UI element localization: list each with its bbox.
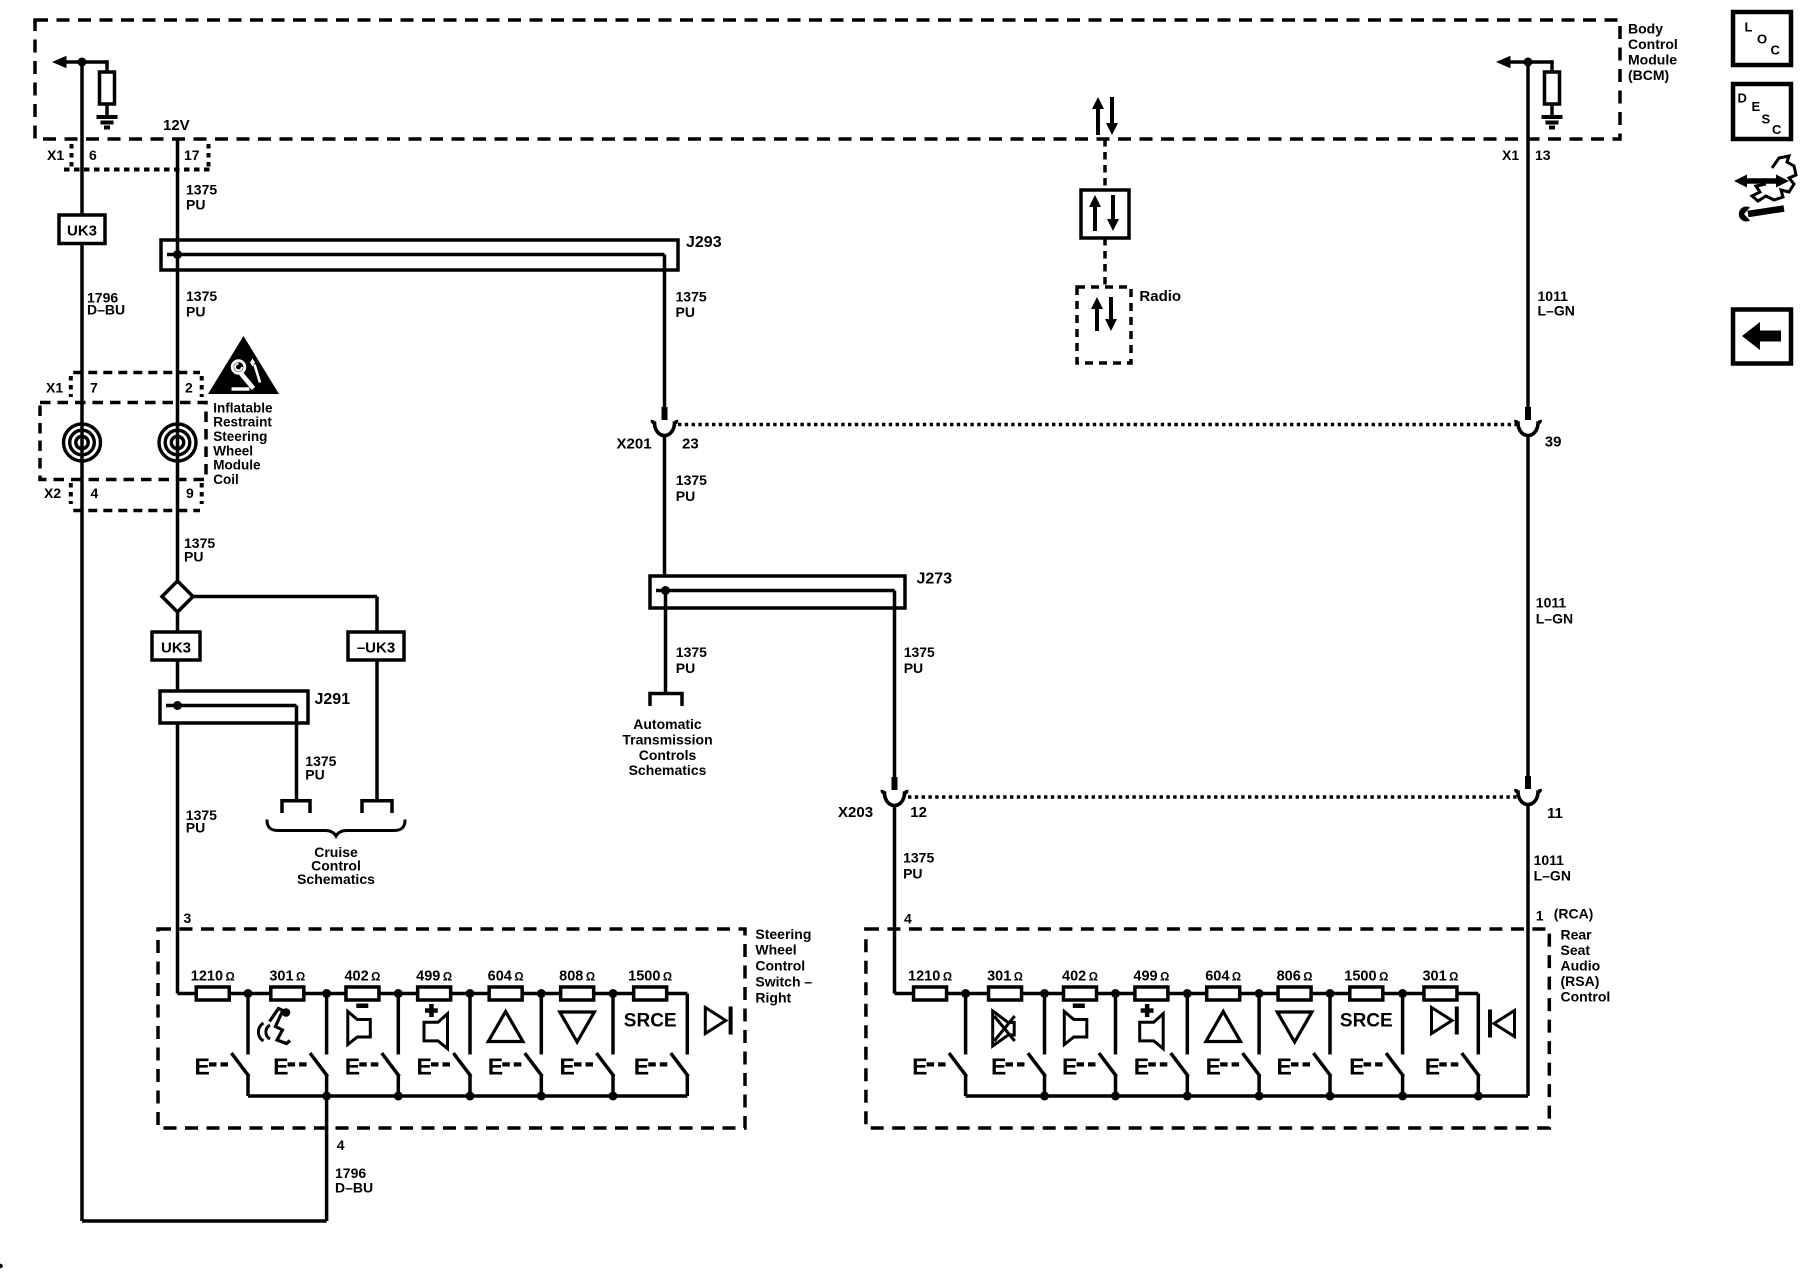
svg-text:499Ω: 499Ω bbox=[416, 969, 452, 985]
svg-text:E: E bbox=[912, 1054, 927, 1080]
junction on bottom bus x=1259.1 bbox=[1255, 1092, 1264, 1101]
connector plane dotted bbox=[908, 795, 1518, 799]
svg-text:E: E bbox=[1134, 1054, 1149, 1080]
Body Control Module (BCM) dashed box bbox=[35, 20, 1620, 139]
svg-text:E: E bbox=[1349, 1054, 1364, 1080]
svg-text:E: E bbox=[560, 1054, 575, 1080]
coil right spiral bbox=[159, 424, 196, 461]
svg-text:Switch –: Switch – bbox=[755, 974, 812, 990]
junction on bottom bus x=1044.5 bbox=[1040, 1092, 1049, 1101]
svg-text:17: 17 bbox=[184, 147, 200, 163]
serial data arrows at BCM bbox=[1096, 106, 1100, 135]
svg-text:Schematics: Schematics bbox=[629, 762, 707, 778]
connector pin 39 bbox=[1525, 407, 1531, 420]
svg-text:E: E bbox=[1752, 99, 1761, 114]
svg-text:1375: 1375 bbox=[904, 644, 935, 660]
svg-text:Schematics: Schematics bbox=[297, 871, 375, 887]
svg-text:Control: Control bbox=[1561, 988, 1611, 1004]
svg-text:E: E bbox=[1206, 1054, 1221, 1080]
svg-text:4: 4 bbox=[337, 1137, 345, 1153]
svg-text:E: E bbox=[991, 1054, 1006, 1080]
switch blade bbox=[672, 1055, 688, 1076]
svg-text:PU: PU bbox=[186, 303, 205, 319]
top bus wire bbox=[895, 992, 1479, 996]
junction bbox=[1524, 58, 1533, 67]
seek down icon bbox=[1277, 1012, 1312, 1042]
svg-text:1375: 1375 bbox=[903, 850, 934, 866]
switch contact at x=1330 bbox=[1328, 994, 1332, 1055]
wire 1011 L-GN bbox=[1526, 62, 1530, 420]
junction on top bus x=1402.6 bbox=[1398, 989, 1407, 998]
switch blade bbox=[1244, 1055, 1260, 1076]
svg-text:Right: Right bbox=[755, 989, 791, 1005]
wire 1375 PU from BCM pin 17 bbox=[176, 139, 180, 581]
switch contact at x=965.6 bbox=[964, 994, 968, 1055]
connector plane dotted bbox=[678, 423, 1518, 427]
svg-text:808Ω: 808Ω bbox=[559, 969, 595, 985]
svg-text:L–GN: L–GN bbox=[1534, 868, 1571, 884]
svg-text:J273: J273 bbox=[917, 571, 953, 588]
svg-text:Seat: Seat bbox=[1561, 942, 1591, 958]
wire bbox=[1526, 805, 1530, 1096]
svg-text:X2: X2 bbox=[44, 485, 61, 501]
junction on top bus x=1187.3 bbox=[1183, 989, 1192, 998]
svg-text:1011: 1011 bbox=[1534, 852, 1565, 868]
resistor 1500 ohm bbox=[634, 987, 667, 1000]
wire to transmission bbox=[664, 591, 668, 693]
svg-text:1011: 1011 bbox=[1536, 595, 1567, 611]
switch contact at x=1115.5 bbox=[1114, 994, 1118, 1055]
svg-text:D–BU: D–BU bbox=[87, 302, 125, 318]
svg-text:Restraint: Restraint bbox=[213, 415, 272, 430]
voice recognition icon bbox=[258, 1023, 263, 1041]
svg-text:1375: 1375 bbox=[676, 289, 707, 305]
junction on top bus x=398.3 bbox=[394, 989, 403, 998]
wire to pin 4 bbox=[325, 1096, 329, 1221]
svg-text:Audio: Audio bbox=[1561, 957, 1601, 973]
connector pin 11 bbox=[1525, 776, 1531, 789]
switch blade bbox=[1463, 1055, 1479, 1076]
svg-text:E: E bbox=[634, 1054, 649, 1080]
junction on bottom bus x=1402.6 bbox=[1398, 1092, 1407, 1101]
svg-text:Control: Control bbox=[1628, 36, 1678, 52]
resistor 604 ohm bbox=[489, 987, 522, 1000]
svg-text:301Ω: 301Ω bbox=[269, 969, 305, 985]
switch blade bbox=[1172, 1055, 1188, 1076]
connector X1 (coil) bracket bbox=[73, 371, 200, 375]
switch blade bbox=[526, 1055, 542, 1076]
fuse UK3 box (2) bbox=[152, 632, 200, 660]
serial data dashed wire bbox=[1103, 139, 1107, 190]
svg-text:806Ω: 806Ω bbox=[1277, 969, 1313, 985]
junction on bottom bus x=326.6 bbox=[322, 1092, 331, 1101]
wire 1796 D-BU from BCM X1-6 bbox=[80, 62, 84, 215]
resistor 301 ohm bbox=[271, 987, 304, 1000]
resistor 402 ohm bbox=[346, 987, 379, 1000]
svg-text:1375: 1375 bbox=[186, 288, 217, 304]
svg-text:Controls: Controls bbox=[639, 747, 697, 763]
switch blade bbox=[598, 1055, 614, 1076]
brace bbox=[267, 820, 405, 837]
junction on top bus x=248 bbox=[244, 989, 253, 998]
switch contact at x=326.6 bbox=[325, 994, 329, 1055]
junction on bottom bus x=613 bbox=[609, 1092, 618, 1101]
ground bbox=[97, 115, 118, 119]
wire bbox=[1550, 60, 1554, 72]
switch contact at x=398.3 bbox=[397, 994, 401, 1055]
bottom bus wire bbox=[248, 1094, 687, 1098]
LOC button bbox=[1733, 12, 1791, 65]
resistor 402 ohm bbox=[1064, 987, 1097, 1000]
resistor 301 ohm bbox=[989, 987, 1022, 1000]
switch blade bbox=[1387, 1055, 1403, 1076]
svg-text:X203: X203 bbox=[838, 804, 873, 821]
junction on top bus x=541.3 bbox=[537, 989, 546, 998]
svg-text:1500Ω: 1500Ω bbox=[1344, 969, 1388, 985]
svg-text:J291: J291 bbox=[315, 691, 351, 708]
switch blade bbox=[383, 1055, 399, 1076]
resistor 1500 ohm bbox=[1350, 987, 1383, 1000]
svg-text:PU: PU bbox=[676, 304, 695, 320]
svg-text:D: D bbox=[1738, 91, 1747, 106]
switch contact at x=541.3 bbox=[540, 994, 544, 1055]
svg-text:402Ω: 402Ω bbox=[344, 969, 380, 985]
junction in J293 bbox=[173, 250, 182, 259]
navigation/wrench icon bbox=[1744, 178, 1779, 184]
junction on top bus x=1044.5 bbox=[1040, 989, 1049, 998]
switch contact at x=1478.3 bbox=[1477, 994, 1481, 1055]
svg-text:E: E bbox=[1277, 1054, 1292, 1080]
junction on top bus x=470 bbox=[466, 989, 475, 998]
switch blade bbox=[1315, 1055, 1331, 1076]
svg-text:PU: PU bbox=[676, 660, 695, 676]
page corner mark bbox=[0, 1264, 3, 1269]
coil left spiral bbox=[64, 424, 101, 461]
wire bbox=[176, 611, 180, 633]
svg-text:SRCE: SRCE bbox=[1340, 1011, 1393, 1032]
svg-text:E: E bbox=[195, 1054, 210, 1080]
svg-text:Radio: Radio bbox=[1139, 288, 1181, 305]
junction on bottom bus x=1115.5 bbox=[1111, 1092, 1120, 1101]
switch contact at x=1187.3 bbox=[1186, 994, 1190, 1055]
svg-text:2: 2 bbox=[185, 380, 193, 396]
svg-text:–UK3: –UK3 bbox=[357, 640, 395, 657]
switch contact at x=1259.1 bbox=[1257, 994, 1261, 1055]
inflatable restraint warning triangle bbox=[208, 336, 279, 394]
svg-text:E: E bbox=[345, 1054, 360, 1080]
svg-text:1375: 1375 bbox=[676, 644, 707, 660]
connector X203 pin bbox=[892, 777, 898, 790]
svg-text:3: 3 bbox=[184, 910, 192, 926]
svg-text:13: 13 bbox=[1535, 147, 1551, 163]
switch contact at x=1402.6 bbox=[1401, 994, 1405, 1055]
svg-text:X1: X1 bbox=[47, 147, 64, 163]
svg-text:Wheel: Wheel bbox=[755, 942, 796, 958]
junction bbox=[78, 58, 87, 67]
svg-text:1375: 1375 bbox=[186, 181, 217, 197]
next track icon bbox=[705, 1008, 726, 1034]
wire bbox=[893, 806, 897, 994]
svg-text:(RSA): (RSA) bbox=[1561, 973, 1600, 989]
svg-text:Wheel: Wheel bbox=[213, 443, 253, 458]
svg-text:J293: J293 bbox=[686, 234, 722, 251]
svg-text:23: 23 bbox=[682, 436, 699, 453]
svg-text:PU: PU bbox=[903, 866, 922, 882]
svg-text:PU: PU bbox=[186, 197, 205, 213]
svg-text:L: L bbox=[1745, 20, 1753, 35]
svg-text:1500Ω: 1500Ω bbox=[628, 969, 672, 985]
svg-text:C: C bbox=[1771, 43, 1781, 58]
mute icon bbox=[993, 1011, 1015, 1046]
svg-text:Inflatable: Inflatable bbox=[213, 400, 273, 415]
Inflatable Restraint Steering Wheel Module Coil dashed box bbox=[40, 403, 206, 480]
wire bbox=[1508, 60, 1552, 64]
junction on bottom bus x=1330 bbox=[1326, 1092, 1335, 1101]
resistor (BCM internal pull-up right) bbox=[1545, 72, 1560, 104]
wire to -UK3 bbox=[192, 595, 378, 599]
switch blade bbox=[950, 1055, 966, 1076]
connector X1 bracket bbox=[70, 144, 74, 170]
svg-text:6: 6 bbox=[89, 147, 97, 163]
wire J293 to X201 bbox=[663, 255, 667, 271]
connector X201 pin bbox=[662, 407, 668, 420]
junction on bottom bus x=541.3 bbox=[537, 1092, 546, 1101]
wire bbox=[1526, 436, 1530, 789]
svg-text:(RCA): (RCA) bbox=[1554, 905, 1594, 921]
svg-text:X1: X1 bbox=[1502, 147, 1519, 163]
Rear Seat Audio (RSA) dashed box bbox=[866, 929, 1549, 1128]
switch contact at x=1044.5 bbox=[1043, 994, 1047, 1055]
wire -UK3 to cruise bbox=[375, 660, 379, 799]
splice diamond bbox=[162, 581, 193, 612]
svg-text:1375: 1375 bbox=[676, 472, 707, 488]
switch contact at x=613 bbox=[611, 994, 615, 1055]
svg-text:X201: X201 bbox=[617, 436, 652, 453]
DESC button bbox=[1733, 84, 1791, 139]
bottom bus wire bbox=[966, 1094, 1528, 1098]
resistor 808 ohm bbox=[561, 987, 594, 1000]
svg-text:E: E bbox=[488, 1054, 503, 1080]
switch blade bbox=[1029, 1055, 1045, 1076]
svg-text:E: E bbox=[1062, 1054, 1077, 1080]
volume up icon bbox=[424, 1014, 448, 1049]
svg-text:PU: PU bbox=[186, 820, 205, 836]
wire bbox=[663, 436, 667, 576]
svg-text:PU: PU bbox=[305, 766, 324, 782]
svg-text:604Ω: 604Ω bbox=[488, 969, 524, 985]
serial data dashed wire bbox=[1103, 238, 1107, 287]
wire J291 branch bbox=[295, 706, 299, 800]
svg-text:12: 12 bbox=[910, 804, 927, 821]
svg-text:(BCM): (BCM) bbox=[1628, 67, 1669, 83]
top bus wire bbox=[178, 992, 688, 996]
svg-text:SRCE: SRCE bbox=[624, 1011, 677, 1032]
junction on bottom bus x=398.3 bbox=[394, 1092, 403, 1101]
svg-text:39: 39 bbox=[1545, 433, 1562, 450]
back button bbox=[1733, 310, 1791, 364]
svg-text:Steering: Steering bbox=[755, 926, 811, 942]
svg-text:L–GN: L–GN bbox=[1536, 611, 1573, 627]
fuse UK3 box bbox=[59, 215, 105, 244]
svg-text:E: E bbox=[417, 1054, 432, 1080]
svg-text:301Ω: 301Ω bbox=[987, 969, 1023, 985]
svg-text:1210Ω: 1210Ω bbox=[191, 969, 235, 985]
svg-text:X1: X1 bbox=[46, 380, 63, 396]
junction on bottom bus x=1187.3 bbox=[1183, 1092, 1192, 1101]
svg-text:E: E bbox=[273, 1054, 288, 1080]
junction on top bus x=613 bbox=[609, 989, 618, 998]
return wire bottom bbox=[82, 1219, 327, 1223]
resistor 1210 ohm bbox=[914, 987, 947, 1000]
wire bbox=[176, 660, 180, 691]
junction on bottom bus x=470 bbox=[466, 1092, 475, 1101]
svg-text:11: 11 bbox=[1547, 805, 1563, 822]
volume down icon bbox=[348, 1012, 371, 1045]
switch blade bbox=[233, 1055, 249, 1076]
svg-text:7: 7 bbox=[90, 380, 98, 396]
wire bbox=[64, 60, 107, 64]
svg-text:Transmission: Transmission bbox=[622, 731, 712, 747]
BCM right output arrow bbox=[1496, 56, 1511, 69]
wire bbox=[1550, 104, 1554, 117]
svg-text:402Ω: 402Ω bbox=[1062, 969, 1098, 985]
next track icon bbox=[1432, 1008, 1453, 1034]
svg-text:Module: Module bbox=[1628, 52, 1677, 68]
resistor 499 ohm bbox=[1135, 987, 1168, 1000]
svg-text:Steering: Steering bbox=[213, 429, 267, 444]
svg-text:PU: PU bbox=[184, 549, 203, 565]
svg-text:1: 1 bbox=[1536, 908, 1544, 924]
previous track icon bbox=[1488, 1010, 1492, 1038]
svg-text:Rear: Rear bbox=[1561, 926, 1593, 942]
switch contact at x=687.3 bbox=[686, 994, 690, 1055]
svg-text:D–BU: D–BU bbox=[335, 1179, 373, 1195]
svg-text:UK3: UK3 bbox=[67, 223, 97, 240]
BCM left output arrow bbox=[52, 56, 67, 69]
wire bbox=[105, 60, 109, 72]
svg-text:301Ω: 301Ω bbox=[1422, 969, 1458, 985]
junction on bottom bus x=1478.3 bbox=[1474, 1092, 1483, 1101]
junction on top bus x=1115.5 bbox=[1111, 989, 1120, 998]
wire bbox=[105, 104, 109, 117]
wire main below J291 bbox=[176, 723, 180, 994]
serial data box bbox=[1081, 190, 1129, 238]
volume up icon bbox=[1140, 1014, 1164, 1049]
svg-text:O: O bbox=[1757, 32, 1767, 47]
transmission stub connector bbox=[650, 694, 682, 707]
svg-text:Control: Control bbox=[755, 958, 805, 974]
switch blade bbox=[311, 1055, 327, 1076]
ground bbox=[1542, 115, 1563, 119]
resistor 301 ohm bbox=[1424, 987, 1457, 1000]
Steering Wheel Control Switch dashed box bbox=[158, 929, 745, 1128]
splice pack J293 bbox=[161, 240, 678, 270]
svg-text:604Ω: 604Ω bbox=[1205, 969, 1241, 985]
svg-text:PU: PU bbox=[676, 488, 695, 504]
seek down icon bbox=[560, 1012, 595, 1042]
volume down icon bbox=[1064, 1012, 1087, 1045]
junction on top bus x=965.6 bbox=[961, 989, 970, 998]
fuse -UK3 box bbox=[348, 632, 404, 660]
svg-text:UK3: UK3 bbox=[161, 640, 191, 657]
switch blade bbox=[1100, 1055, 1116, 1076]
junction on top bus x=1259.1 bbox=[1255, 989, 1264, 998]
junction on top bus x=326.6 bbox=[322, 989, 331, 998]
svg-text:4: 4 bbox=[904, 911, 912, 927]
splice pack J291 bbox=[160, 691, 308, 723]
svg-text:C: C bbox=[1772, 122, 1782, 137]
svg-text:PU: PU bbox=[904, 660, 923, 676]
resistor 1210 ohm bbox=[196, 987, 229, 1000]
svg-text:Coil: Coil bbox=[213, 472, 239, 487]
Radio dashed box bbox=[1077, 287, 1131, 363]
switch blade bbox=[455, 1055, 471, 1076]
switch contact at x=248 bbox=[246, 994, 250, 1055]
svg-text:Body: Body bbox=[1628, 21, 1663, 37]
wire bbox=[80, 244, 84, 1222]
resistor 604 ohm bbox=[1207, 987, 1240, 1000]
svg-text:12V: 12V bbox=[163, 117, 190, 134]
svg-text:E: E bbox=[1425, 1054, 1440, 1080]
switch contact at x=470 bbox=[468, 994, 472, 1055]
svg-text:1210Ω: 1210Ω bbox=[908, 969, 952, 985]
cruise stub connector right bbox=[362, 801, 392, 813]
cruise stub connector left bbox=[282, 801, 310, 813]
resistor 806 ohm bbox=[1278, 987, 1311, 1000]
svg-text:4: 4 bbox=[91, 485, 99, 501]
seek up icon bbox=[1206, 1012, 1241, 1042]
svg-text:Automatic: Automatic bbox=[633, 716, 702, 732]
junction on top bus x=1330 bbox=[1326, 989, 1335, 998]
svg-text:9: 9 bbox=[186, 485, 194, 501]
svg-text:499Ω: 499Ω bbox=[1133, 969, 1169, 985]
splice pack J273 bbox=[650, 576, 905, 608]
wire J273 to X203 bbox=[893, 591, 897, 779]
svg-text:S: S bbox=[1762, 112, 1771, 127]
resistor (BCM internal pull-up left) bbox=[100, 72, 115, 104]
resistor 499 ohm bbox=[418, 987, 451, 1000]
seek up icon bbox=[488, 1012, 523, 1042]
svg-text:Module: Module bbox=[213, 458, 261, 473]
svg-text:L–GN: L–GN bbox=[1538, 302, 1575, 318]
